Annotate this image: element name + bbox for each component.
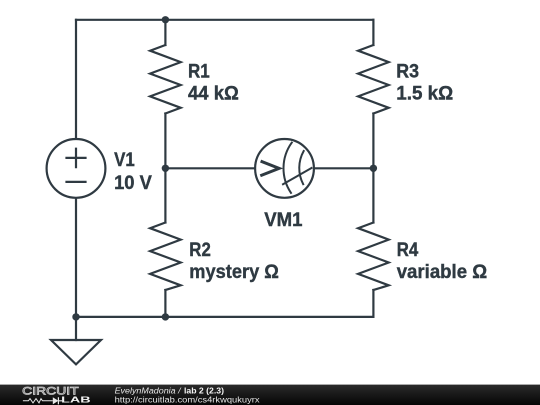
ground symbol (51, 340, 101, 364)
voltmeter VM1 circle (255, 139, 314, 198)
VM1 arrow marker (262, 162, 279, 176)
VM1 meter arc outer (283, 143, 291, 193)
VM1 meter arc inner (299, 151, 303, 184)
svg-text:variable Ω: variable Ω (397, 261, 488, 283)
logo diode (53, 397, 59, 404)
V1 minus sign (67, 181, 86, 183)
wire middle row right (VM1 to right rail) (314, 167, 373, 169)
wire R3 bottom lead (372, 114, 374, 169)
wire R2 top lead (164, 168, 166, 222)
wire left vertical lower (75, 198, 77, 317)
wire bottom rail (76, 316, 373, 318)
resistor R2 (150, 223, 181, 291)
svg-text:LAB: LAB (61, 396, 91, 405)
node junction middle (R1/R2/VM1) (162, 165, 169, 172)
node junction top (R1/top rail) (162, 16, 169, 23)
wire top rail (76, 19, 373, 21)
wire R4 top lead (372, 168, 374, 222)
V1 plus sign (67, 149, 86, 167)
svg-text:mystery Ω: mystery Ω (189, 261, 279, 283)
svg-text:R3: R3 (396, 61, 419, 83)
svg-text:R4: R4 (397, 239, 419, 261)
wire R2 bottom lead (164, 290, 166, 317)
svg-text:10 V: 10 V (114, 172, 152, 194)
VM1 needle (283, 168, 312, 184)
logo wire with resistor (23, 399, 53, 403)
svg-text:http://circuitlab.com/cs4rkwqu: http://circuitlab.com/cs4rkwqukuyrx (115, 395, 261, 405)
wire middle row left (node to VM1) (165, 167, 254, 169)
node junction bottom (R2/bottom rail) (162, 313, 169, 320)
logo diode bar and lead (58, 397, 62, 404)
svg-text:1.5 kΩ: 1.5 kΩ (396, 83, 453, 105)
node junction right (R3/R4/VM1) (370, 165, 377, 172)
voltage source V1 circle (47, 139, 106, 198)
wire R1 bottom lead (164, 114, 166, 169)
svg-text:R1: R1 (188, 61, 210, 83)
footer bar (0, 385, 540, 405)
wire R3 top lead (372, 20, 374, 45)
node junction bottom left (ground) (72, 313, 79, 320)
svg-text:44 kΩ: 44 kΩ (188, 83, 239, 105)
svg-text:V1: V1 (114, 149, 135, 171)
resistor R3 (358, 45, 389, 114)
svg-text:VM1: VM1 (264, 209, 302, 231)
wire left vertical upper (75, 20, 77, 139)
resistor R4 (358, 223, 389, 291)
wire ground stem (75, 317, 77, 340)
svg-text:R2: R2 (189, 239, 211, 261)
wire R1 top lead (164, 20, 166, 45)
wire R4 bottom lead (372, 290, 374, 317)
resistor R1 (150, 45, 181, 114)
